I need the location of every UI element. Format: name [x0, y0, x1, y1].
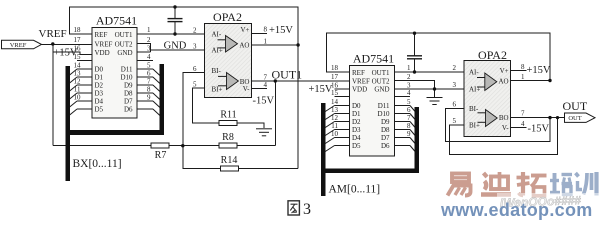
svg-text:BX[0...11]: BX[0...11] — [73, 158, 122, 170]
svg-text:GND: GND — [117, 49, 132, 57]
svg-text:V-: V- — [502, 124, 509, 132]
U3 data slant wires right into bus — [410, 106, 416, 153]
svg-text:12: 12 — [331, 114, 339, 122]
junction dot AO2 — [548, 79, 551, 82]
junction dot C1 bottom — [173, 32, 176, 35]
watermark char PEI (培) blue — [550, 173, 572, 195]
junction dot C1 top — [173, 5, 176, 8]
svg-text:www.edatop.com: www.edatop.com — [440, 200, 593, 220]
svg-text:14: 14 — [331, 98, 339, 106]
svg-text:7: 7 — [407, 114, 411, 122]
svg-text:BO: BO — [499, 114, 509, 122]
wire U3 OUT2 pin 2 jog — [395, 81, 435, 90]
svg-text:6: 6 — [407, 106, 411, 114]
wire U1 OUT2 pin 2 jog — [137, 44, 151, 53]
bus AM tail — [321, 173, 326, 196]
svg-text:3: 3 — [453, 81, 457, 89]
svg-text:D2: D2 — [352, 118, 361, 126]
ground symbol G2 — [427, 98, 443, 105]
svg-text:2: 2 — [193, 27, 197, 35]
svg-text:D3: D3 — [352, 126, 361, 134]
pin 15 stub U3 — [335, 96, 350, 98]
wire U4 V+ pin 8 stub — [511, 70, 527, 72]
op-amp U2 B input stubs — [218, 75, 227, 77]
U3 data pin stubs D11-D6 right — [395, 105, 411, 107]
pin 15 stub U1 — [77, 60, 92, 62]
svg-text:9: 9 — [147, 94, 151, 102]
svg-text:OUT1: OUT1 — [115, 31, 133, 39]
svg-text:4: 4 — [264, 81, 268, 89]
svg-text:8: 8 — [264, 26, 268, 34]
svg-text:D8: D8 — [124, 90, 133, 98]
svg-text:D1: D1 — [352, 110, 361, 118]
svg-text:VDD: VDD — [95, 49, 110, 57]
resistor R7 body — [151, 143, 169, 148]
svg-text:6: 6 — [147, 70, 151, 78]
svg-text:OUT1: OUT1 — [372, 69, 390, 77]
op-amp U4 triangle B — [486, 110, 498, 127]
svg-text:12: 12 — [74, 78, 82, 86]
svg-text:VDD: VDD — [352, 86, 367, 94]
svg-text:AD7541: AD7541 — [96, 14, 137, 28]
svg-text:13: 13 — [331, 106, 339, 114]
wire VREF node vertical down to R7 — [52, 44, 54, 146]
svg-text:GND: GND — [374, 86, 389, 94]
svg-text:BI+: BI+ — [212, 86, 223, 94]
capacitor C2 plates — [407, 56, 422, 59]
U3 data pin stubs D0-D5 left — [335, 105, 350, 107]
svg-text:6: 6 — [453, 101, 457, 109]
svg-text:3: 3 — [303, 201, 311, 218]
svg-text:D5: D5 — [352, 142, 361, 150]
svg-text:V-: V- — [243, 85, 250, 93]
svg-text:AO: AO — [498, 78, 508, 86]
ground symbol G1 — [256, 129, 272, 136]
svg-text:18: 18 — [331, 64, 339, 72]
svg-text:D2: D2 — [95, 82, 104, 90]
svg-text:D4: D4 — [352, 134, 361, 142]
svg-text:10: 10 — [74, 94, 82, 102]
svg-text:R8: R8 — [222, 132, 234, 143]
svg-text:VREF: VREF — [95, 40, 113, 48]
svg-text:D3: D3 — [95, 90, 104, 98]
svg-text:16: 16 — [74, 45, 82, 53]
svg-text:R11: R11 — [220, 110, 236, 121]
svg-text:1: 1 — [521, 73, 525, 81]
wire U2 B- pin 6 to node B1 — [183, 73, 205, 146]
svg-text:D6: D6 — [381, 142, 390, 150]
svg-text:3: 3 — [193, 43, 197, 51]
svg-text:OUT2: OUT2 — [372, 77, 390, 85]
wire node B1 down to R14 — [183, 146, 222, 169]
svg-text:+15V: +15V — [269, 25, 293, 36]
svg-text:BI+: BI+ — [469, 122, 480, 130]
capacitor C1 plates — [168, 19, 183, 22]
op-amp U4 A input stubs — [477, 77, 485, 79]
svg-text:4: 4 — [147, 53, 151, 61]
U1 data pin stubs D0-D5 left — [77, 68, 92, 70]
svg-text:AI+: AI+ — [212, 47, 223, 55]
wire feedback U3 REF to U4 AO (top loop stage 2) — [327, 33, 550, 80]
svg-text:BI-: BI- — [469, 105, 479, 113]
wire R11 left riser to U2 B+ pin 5 — [192, 88, 221, 123]
svg-text:1: 1 — [407, 64, 411, 72]
bus BX right vertical (thick) — [160, 64, 165, 135]
wire GND node to U2 A+ input — [151, 49, 205, 51]
U1 data slant wires left into bus — [69, 69, 77, 116]
svg-text:-15V: -15V — [528, 124, 550, 135]
svg-text:1: 1 — [264, 38, 268, 46]
svg-text:2: 2 — [147, 36, 151, 44]
port OUT symbol — [565, 113, 596, 122]
DAC U3 AD7541 body — [350, 66, 395, 157]
wire R11 right to ground — [237, 123, 264, 128]
svg-text:18: 18 — [74, 26, 82, 34]
svg-text:BI-: BI- — [212, 67, 222, 75]
svg-text:VREF: VREF — [39, 28, 67, 40]
junction dot OUT node 2 — [556, 116, 559, 119]
svg-text:5: 5 — [407, 98, 411, 106]
svg-text:D7: D7 — [124, 98, 133, 106]
resistor R11 body — [219, 121, 237, 126]
svg-text:17: 17 — [74, 36, 82, 44]
svg-text:OUT: OUT — [568, 115, 581, 122]
wire U2 AO output pin 1 — [252, 44, 299, 46]
wire U2 V+ pin 8 stub — [252, 33, 268, 35]
svg-text:D10: D10 — [377, 110, 390, 118]
svg-text:V+: V+ — [500, 67, 509, 75]
svg-text:5: 5 — [453, 117, 457, 125]
svg-text:14: 14 — [74, 62, 82, 70]
bus BX left vertical (thick) — [66, 66, 71, 135]
watermark char XUN (训) blue — [576, 172, 597, 196]
resistor R8 body — [219, 143, 237, 148]
wire feedback loop U4 B- to OUT node — [445, 108, 550, 141]
wire U4 V- pin 4 stub — [511, 127, 527, 129]
wire U2 BO pin 7 OUT1 to U3 VREF pin 17 — [252, 80, 350, 82]
svg-text:D0: D0 — [95, 66, 104, 74]
svg-text:D1: D1 — [95, 74, 104, 82]
svg-text:2: 2 — [407, 73, 411, 81]
U3 pin 4 stub right — [395, 96, 411, 98]
svg-text:D7: D7 — [381, 134, 390, 142]
wire R7 input from VREF vertical — [53, 145, 151, 147]
svg-text:OPA2: OPA2 — [478, 48, 507, 62]
junction dot ground G2 — [433, 87, 436, 90]
junction dot VREF node — [51, 42, 54, 45]
bus AM left vertical (thick) — [321, 103, 326, 173]
wire R14 right to AO riser — [239, 168, 299, 170]
watermark light band behind QQ text — [497, 193, 600, 212]
wire U3 OUT1 pin 1 to U4 A- input — [395, 71, 464, 73]
U1 data pin stubs D11-D6 right — [137, 68, 153, 70]
svg-text:D4: D4 — [95, 98, 104, 106]
wire U4 BO pin 7 to OUT port — [511, 117, 565, 119]
svg-text:OUT2: OUT2 — [115, 40, 133, 48]
svg-text:D9: D9 — [381, 118, 390, 126]
svg-text:D11: D11 — [378, 102, 390, 110]
capacitor C2 stems — [414, 33, 416, 56]
wire vertical AO node down to R14 — [297, 45, 299, 169]
bus BX bottom horizontal (thick) — [66, 130, 165, 135]
svg-text:D10: D10 — [120, 74, 133, 82]
wire R7 to node B1 — [169, 145, 221, 147]
svg-text:2: 2 — [453, 64, 457, 72]
junction dot C2 bottom — [413, 70, 416, 73]
svg-text:9: 9 — [407, 130, 411, 138]
svg-text:OUT1: OUT1 — [272, 68, 303, 82]
junction dot C2 top — [413, 32, 416, 35]
watermark char DI (迪) salmon — [481, 172, 511, 195]
caption figure character TU (图) drawn — [288, 201, 299, 215]
svg-text:4: 4 — [407, 89, 411, 97]
svg-text:17: 17 — [331, 73, 339, 81]
svg-text:10: 10 — [331, 130, 339, 138]
svg-text:11: 11 — [331, 122, 338, 130]
op-amp U2 OPA2 body — [205, 24, 252, 98]
junction dot node B1 — [181, 144, 184, 147]
svg-text:4: 4 — [521, 120, 525, 128]
svg-text:1: 1 — [147, 26, 151, 34]
svg-text:D9: D9 — [124, 82, 133, 90]
svg-text:AD7541: AD7541 — [353, 52, 394, 66]
wire R8 right to BO riser — [237, 145, 275, 147]
svg-text:AI+: AI+ — [469, 86, 480, 94]
svg-text:-15V: -15V — [253, 96, 275, 107]
svg-text:15: 15 — [74, 53, 82, 61]
svg-text:REF: REF — [352, 69, 365, 77]
wire +15V branch to U1 VDD pin 16 — [53, 52, 92, 55]
op-amp U4 triangle A — [485, 73, 497, 91]
op-amp U4 B input stubs — [478, 112, 486, 114]
svg-text:AM[0...11]: AM[0...11] — [329, 184, 381, 196]
wire +15V stub U3 VDD pin 16 — [335, 88, 350, 90]
svg-text:8: 8 — [521, 63, 525, 71]
resistor R14 body — [221, 166, 239, 171]
U3 data slant wires left into bus — [325, 106, 335, 153]
svg-text:REF: REF — [95, 31, 108, 39]
svg-text:5: 5 — [147, 62, 151, 70]
wire U1 GND pin 3 — [137, 51, 151, 53]
watermark char TUO (拓) salmon — [517, 172, 547, 196]
svg-text:8: 8 — [147, 86, 151, 94]
junction dot AO1 — [296, 43, 299, 46]
port VREF symbol — [2, 40, 42, 49]
svg-text:D6: D6 — [124, 106, 133, 114]
wire feedback U1 REF to U2 AO (top loop stage 1) — [69, 7, 298, 45]
wire loop U4 B+ to OUT node — [449, 118, 557, 155]
op-amp U4 OPA2 body — [464, 61, 511, 137]
junction dot BO1-R8 — [274, 79, 277, 82]
wire U1 OUT1 pin 1 to U2 A- input — [137, 33, 205, 35]
svg-text:D11: D11 — [121, 66, 133, 74]
watermark char YI (易) salmon — [448, 174, 471, 196]
svg-text:AO: AO — [239, 42, 249, 50]
svg-text:3: 3 — [147, 45, 151, 53]
DAC U1 AD7541 body — [92, 28, 137, 119]
op-amp U2 triangle B — [227, 73, 239, 90]
bus BX tail — [66, 135, 71, 181]
wire U4 AO output pin 1 — [511, 80, 550, 82]
wire U3 GND pin 3 to U4 A+ input — [395, 88, 464, 90]
svg-text:+15V: +15V — [309, 84, 333, 95]
junction dot OUT node — [548, 116, 551, 119]
svg-text:R14: R14 — [221, 155, 238, 166]
op-amp U2 A input stubs — [218, 39, 226, 41]
svg-text:VREF: VREF — [352, 77, 370, 85]
svg-text:VREF: VREF — [10, 42, 27, 49]
svg-text:D0: D0 — [352, 102, 361, 110]
svg-text:AI-: AI- — [469, 69, 479, 77]
svg-text:15: 15 — [331, 89, 339, 97]
svg-text:7: 7 — [521, 110, 525, 118]
wire U2 V- pin 4 stub — [252, 88, 268, 90]
svg-text:8: 8 — [407, 122, 411, 130]
svg-text:11: 11 — [74, 86, 81, 94]
wire riser R8 to U2 BO output — [274, 81, 276, 146]
svg-text:5: 5 — [193, 81, 197, 89]
svg-text:D5: D5 — [95, 106, 104, 114]
svg-text:13: 13 — [74, 70, 82, 78]
ground symbol G2 stem — [434, 89, 436, 97]
bus AM bottom horizontal (thick) — [321, 169, 419, 174]
svg-text:R7: R7 — [155, 150, 167, 161]
svg-text:OPA2: OPA2 — [213, 10, 242, 24]
svg-text:+15V: +15V — [527, 65, 551, 76]
svg-text:GND: GND — [164, 41, 187, 52]
op-amp U2 triangle A — [226, 36, 238, 53]
svg-text:7: 7 — [147, 78, 151, 86]
U1 data slant wires right into bus — [153, 69, 160, 116]
svg-text:AI-: AI- — [212, 31, 222, 39]
bus AM right vertical (thick) — [415, 107, 420, 173]
wire VREF port to U1 VREF pin 17 — [42, 43, 93, 45]
svg-text:D8: D8 — [381, 126, 390, 134]
U1 pin 4 stub right — [137, 60, 153, 62]
svg-text:6: 6 — [193, 65, 197, 73]
svg-text:V+: V+ — [240, 26, 249, 34]
capacitor C1 stems — [174, 7, 176, 19]
svg-text:OUT: OUT — [563, 99, 588, 113]
